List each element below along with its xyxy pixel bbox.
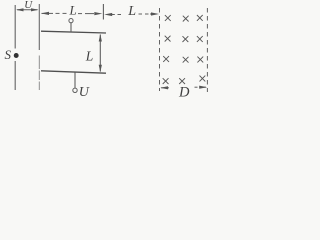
dimension L1 right arrow — [94, 12, 102, 15]
field boundary left dashed line — [159, 8, 161, 91]
svg-text:L: L — [127, 4, 136, 19]
svg-text:U: U — [79, 85, 90, 100]
svg-text:S: S — [5, 47, 12, 62]
dimension L vertical (plate separation) line — [99, 35, 101, 72]
bottom deflection plate — [41, 71, 106, 73]
magnetic field cross r4c3 — [200, 76, 206, 82]
magnetic field cross r4c1 — [163, 78, 169, 84]
dimension U arrow (accelerating gap) — [17, 9, 38, 11]
magnetic field cross r2c2 — [183, 36, 189, 42]
electrode plate P1 (left accelerating electrode, upper part) — [14, 5, 16, 49]
dimension L2 dashes — [112, 13, 149, 16]
magnetic field cross r2c1 — [165, 36, 171, 42]
bottom plate terminal lead — [74, 72, 76, 88]
svg-text:D: D — [178, 84, 190, 100]
magnetic field cross r3c3 — [197, 57, 203, 63]
background paper — [0, 0, 224, 109]
dimension L vertical bottom arrowhead — [99, 65, 102, 73]
magnetic field cross r1c2 — [183, 16, 189, 22]
bottom terminal circle — [73, 88, 77, 92]
field boundary right dashed line — [206, 8, 208, 92]
magnetic field cross r3c2 — [183, 57, 189, 63]
dimension L2 (drift length) left arrow — [104, 13, 112, 16]
svg-text:U: U — [24, 0, 33, 11]
electrode plate P2 lower part — [38, 56, 40, 91]
dimension L1 (plate length) left arrow — [42, 12, 54, 14]
dimension D left arrow — [161, 87, 169, 89]
dimension L1 dashes — [56, 12, 95, 14]
top plate terminal circle — [69, 19, 73, 23]
magnetic field cross r3c1 — [163, 56, 169, 62]
svg-text:L: L — [85, 48, 94, 63]
source S dot — [14, 53, 19, 58]
electrode plate P2 (right accelerating electrode, upper part) — [38, 4, 40, 50]
dimension L2 right arrow — [150, 13, 157, 15]
top deflection plate — [41, 31, 106, 33]
dimension D right arrow with dash — [195, 86, 198, 88]
dimension L vertical top arrowhead — [99, 34, 102, 42]
svg-text:L: L — [69, 3, 77, 18]
top plate terminal lead — [70, 23, 72, 32]
magnetic field cross r1c3 — [197, 15, 203, 21]
tick separator between L1 and L2 — [102, 4, 104, 20]
magnetic field cross r2c3 — [197, 36, 203, 42]
magnetic field cross r1c1 — [165, 15, 171, 21]
magnetic field cross r4c2 — [179, 78, 185, 84]
electrode plate P1 lower part — [14, 61, 16, 90]
